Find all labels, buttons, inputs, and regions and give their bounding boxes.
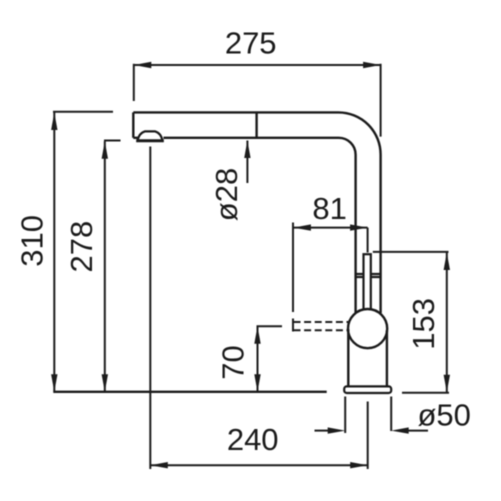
svg-text:278: 278: [64, 221, 99, 273]
arrowhead 153 top: [444, 253, 450, 271]
arrowhead 70 top: [254, 326, 260, 344]
arrowhead 310 top: [51, 113, 57, 131]
dim 153 dimension line: [446, 253, 448, 393]
base disc: [344, 386, 391, 393]
spout bottom line left of aerator dome: [133, 137, 138, 139]
dia50 left arrow tail: [315, 430, 331, 432]
arrowhead 275 right: [363, 62, 381, 68]
arrowhead 70 bottom: [254, 374, 260, 392]
counter reference line: [53, 391, 326, 393]
aerator dome base line: [136, 139, 164, 142]
dim 70 dimension line: [257, 326, 259, 392]
handle lever rod: [364, 254, 371, 311]
dim 275 left extension line: [133, 64, 135, 101]
arrowhead 81 left: [293, 224, 311, 230]
arrowhead 310 bottom: [51, 374, 57, 392]
spout tip end cap: [132, 112, 134, 137]
body right edge below ball: [386, 331, 388, 387]
dim 81 drop link to lever: [367, 228, 369, 253]
svg-text:275: 275: [225, 26, 277, 61]
dim 240 right extension line (base centerline): [367, 402, 369, 470]
ball joint circle: [348, 309, 387, 348]
aerator outlet dome under spout tip: [138, 131, 163, 140]
dim 275 right extension line: [380, 64, 382, 137]
svg-text:153: 153: [406, 298, 441, 350]
dim 310 dimension line: [53, 113, 55, 392]
neck joint line upper: [356, 273, 381, 275]
dim 240 dimension line: [150, 464, 367, 466]
dim 70 top extension line: [257, 325, 283, 327]
arrowhead 81 right: [350, 224, 368, 230]
dim 278 top extension line: [104, 140, 121, 142]
dim 153 bottom extension line: [402, 392, 449, 394]
arrowhead dia50 right (pointing left): [391, 427, 409, 433]
body left edge below ball: [347, 331, 349, 387]
svg-text:ø50: ø50: [418, 398, 471, 433]
svg-text:240: 240: [227, 422, 279, 457]
neck joint line lower: [356, 276, 381, 278]
arrowhead 275 left: [134, 62, 152, 68]
svg-text:310: 310: [15, 215, 50, 267]
arrowhead 278 bottom: [102, 374, 108, 392]
svg-text:70: 70: [216, 345, 251, 379]
dia50 right arrow tail: [407, 430, 428, 432]
dim 278 dimension line: [104, 141, 106, 392]
dia28 leader line: [246, 141, 248, 184]
dim 81 left extension line upper: [292, 223, 294, 313]
arrowhead 153 bottom: [444, 375, 450, 393]
dia50 right extension line: [390, 397, 392, 432]
dim 81 left extension line lower dash: [292, 319, 294, 332]
dim 153 top extension line: [373, 251, 449, 253]
dia50 left extension line: [344, 397, 346, 434]
dim 275 dimension line: [134, 64, 381, 66]
arrowhead 240 left: [150, 462, 168, 468]
pull-out head separation line: [255, 112, 257, 137]
faucet spout inner contour (bottom line + bend inner arc + body left edge): [164, 138, 356, 313]
svg-text:81: 81: [312, 191, 346, 226]
dim 81 dimension line: [293, 227, 367, 229]
dim 310 top extension line: [53, 111, 113, 113]
dim 240 left extension line (outlet centerline): [149, 147, 151, 470]
hidden hose dashed line lower: [294, 329, 350, 331]
arrowhead dia50 left (pointing right): [328, 427, 346, 433]
svg-text:ø28: ø28: [209, 168, 244, 221]
arrowhead 278 top: [102, 141, 108, 159]
hidden hose dashed line upper: [294, 321, 350, 323]
faucet spout outer contour (top line + bend outer arc + body right edge): [133, 112, 380, 313]
arrowhead dia28 up: [244, 141, 250, 159]
arrowhead 240 right: [350, 462, 368, 468]
